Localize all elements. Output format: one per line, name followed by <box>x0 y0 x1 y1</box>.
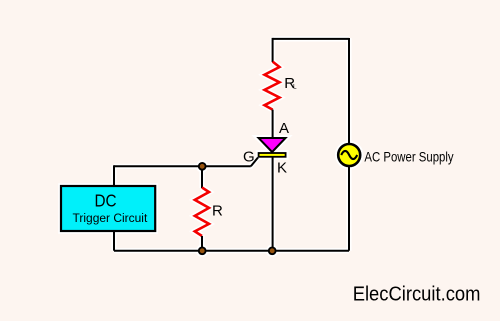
white halo layer under wires <box>61 38 360 254</box>
AC sine wave <box>341 151 357 159</box>
wire gate diagonal <box>251 158 258 167</box>
wire cathode vertical <box>272 158 274 251</box>
resistor R <box>195 188 209 237</box>
wire bottom horizontal <box>114 250 349 252</box>
SCR thyristor triangle <box>259 138 286 152</box>
wire R branch top <box>201 166 203 188</box>
wire box top vertical <box>113 165 115 185</box>
DC trigger circuit box <box>61 186 155 231</box>
svg-text:AC Power Supply: AC Power Supply <box>364 149 453 165</box>
svg-text:A: A <box>279 120 289 137</box>
wire gate horizontal <box>114 165 251 167</box>
SCR cathode bar <box>259 153 286 157</box>
junction dot gate node <box>199 163 206 170</box>
svg-text:Trigger Circuit: Trigger Circuit <box>73 211 148 225</box>
wire right vertical lower <box>348 166 350 251</box>
wire R branch bottom <box>201 236 203 251</box>
resistor RL <box>265 62 280 110</box>
wire anode to SCR <box>272 110 274 139</box>
wire box bottom vertical <box>113 232 115 251</box>
junction dot bottom left <box>199 247 206 254</box>
wire right vertical upper <box>348 38 350 144</box>
svg-text:K: K <box>277 160 287 177</box>
wire anode branch top vertical <box>272 38 274 62</box>
svg-text:R: R <box>212 202 223 219</box>
svg-text:ElecCircuit.com: ElecCircuit.com <box>353 283 481 305</box>
svg-text:L: L <box>293 83 297 90</box>
svg-text:DC: DC <box>95 191 117 211</box>
junction dot bottom right <box>269 247 276 254</box>
wire top horizontal <box>273 38 349 40</box>
AC power supply source <box>338 144 360 166</box>
